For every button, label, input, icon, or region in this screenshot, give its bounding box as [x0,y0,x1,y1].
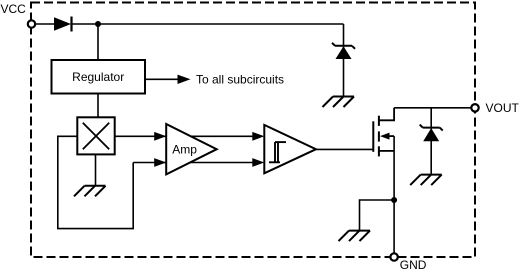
svg-text:GND: GND [400,258,427,270]
svg-text:VOUT: VOUT [486,101,520,115]
svg-text:Amp: Amp [172,143,197,157]
svg-text:VCC: VCC [1,2,27,16]
svg-text:Regulator: Regulator [72,70,124,84]
svg-text:To all subcircuits: To all subcircuits [196,73,284,87]
